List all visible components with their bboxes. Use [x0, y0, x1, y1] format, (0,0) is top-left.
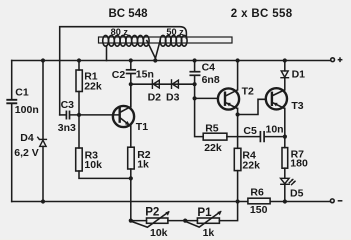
capacitor C5	[260, 132, 264, 142]
svg-text:3n3: 3n3	[58, 122, 76, 134]
svg-text:22k: 22k	[84, 80, 102, 92]
wire T3 collector to D1	[284, 78, 286, 90]
transistor T1	[113, 106, 134, 127]
wire R1 to C3 node to R3	[78, 92, 80, 149]
wire D2 D3 link line	[131, 83, 195, 85]
svg-text:D3: D3	[166, 91, 180, 103]
wire P2 left lead	[131, 220, 147, 222]
svg-text:C4: C4	[202, 62, 216, 74]
transistor T3	[266, 88, 287, 109]
transistor arrowheads	[125, 103, 278, 126]
svg-text:D5: D5	[290, 187, 304, 199]
svg-text:6,2 V: 6,2 V	[14, 147, 39, 159]
led D5 arrowheads	[291, 179, 296, 183]
terminal minus sign	[338, 200, 343, 202]
T1 npn emitter arrow	[125, 121, 130, 125]
wire T1 emitter to R2	[130, 126, 132, 147]
svg-text:R6: R6	[250, 186, 264, 198]
svg-text:1k: 1k	[203, 227, 215, 239]
potentiometer wiper arrowheads	[165, 211, 221, 216]
svg-text:P2: P2	[145, 206, 159, 219]
wire R7 to D5	[284, 168, 286, 178]
capacitor C2	[127, 70, 136, 74]
svg-text:150: 150	[250, 204, 268, 216]
T2 pnp emitter arrow	[226, 103, 231, 107]
wire T2 collector to rail	[237, 61, 239, 90]
svg-text:10n: 10n	[266, 124, 284, 136]
wire T2 emitter to T3 base jog	[238, 99, 266, 114]
svg-text:15n: 15n	[136, 68, 154, 80]
wire R3 bottom lead	[79, 171, 131, 178]
resistor R7	[282, 148, 288, 169]
wire D4 branch upper	[42, 61, 44, 140]
transformer winding 80z	[103, 35, 149, 46]
wire winding 80z left lead	[106, 46, 108, 61]
svg-text:1k: 1k	[137, 159, 149, 171]
wire D1 to rail	[284, 61, 286, 71]
svg-text:D4: D4	[20, 132, 34, 144]
wire C4 down to R5 corner	[195, 76, 204, 137]
wire P2 to P1 link	[168, 220, 198, 222]
wire T2 emitter down	[237, 108, 239, 114]
T3 pnp emitter arrow	[273, 103, 278, 107]
wire C2 to T1 collector	[130, 74, 132, 107]
led D5	[281, 178, 296, 184]
svg-text:P1: P1	[197, 206, 212, 219]
capacitor C3	[66, 111, 69, 118]
resistor R1	[76, 70, 82, 92]
transistor T2	[218, 88, 239, 109]
svg-text:50 z: 50 z	[166, 27, 184, 37]
wire T3 emitter down to R7	[284, 108, 286, 147]
diode D1	[281, 71, 289, 78]
potentiometer P2	[147, 218, 168, 223]
svg-text:10k: 10k	[84, 159, 102, 171]
resistor R2	[128, 147, 135, 169]
wire C2 top lead	[130, 61, 132, 70]
wire top supply rail	[12, 60, 331, 62]
resistor R4	[234, 148, 241, 170]
transformer winding 50z	[160, 35, 187, 46]
svg-text:6n8: 6n8	[202, 74, 220, 86]
wire C5 to T3 emitter column	[265, 136, 285, 138]
terminal minus	[330, 199, 334, 203]
terminal plus sign	[338, 59, 343, 61]
svg-text:D1: D1	[292, 68, 306, 80]
wire bottom supply rail	[12, 201, 331, 203]
svg-text:D2: D2	[148, 91, 162, 103]
svg-text:C2: C2	[112, 69, 126, 81]
capacitor C4	[190, 72, 199, 76]
wire left rail upper	[11, 61, 13, 100]
svg-text:T2: T2	[242, 85, 254, 97]
svg-text:C3: C3	[61, 99, 75, 111]
diode D2	[152, 80, 159, 88]
wire T2 base line	[195, 97, 218, 99]
transformer core bar	[99, 37, 233, 43]
resistor R6	[248, 198, 270, 204]
svg-text:180: 180	[290, 158, 308, 170]
wire R1 top lead	[78, 61, 80, 71]
wire transformer center tap	[147, 40, 161, 58]
wire R5 to C5	[227, 136, 260, 138]
svg-text:2 x BC 558: 2 x BC 558	[231, 8, 293, 20]
wire R2 bottom to P2	[130, 169, 132, 221]
capacitor C1	[7, 100, 16, 104]
resistor R3	[76, 148, 83, 171]
terminal plus	[331, 58, 335, 62]
wire D4 branch lower	[42, 146, 44, 201]
wire R4 top lead	[237, 115, 239, 149]
zener diode D4	[38, 137, 47, 146]
wire R4 bottom to P1 right	[219, 171, 237, 221]
svg-text:80 z: 80 z	[111, 27, 129, 37]
wire T1 base line	[70, 114, 120, 116]
resistor R5	[203, 133, 227, 140]
wire C3 input link	[60, 114, 66, 116]
wire T1 collector lead	[130, 84, 132, 107]
svg-text:C5: C5	[243, 125, 257, 137]
wire C4 top lead	[194, 61, 196, 72]
svg-text:T3: T3	[291, 100, 303, 112]
potentiometer P1	[197, 218, 219, 223]
svg-text:R5: R5	[205, 123, 219, 135]
wire left rail lower	[11, 104, 13, 202]
svg-text:100n: 100n	[15, 104, 39, 116]
svg-text:22k: 22k	[242, 160, 260, 172]
svg-text:BC 548: BC 548	[109, 8, 149, 20]
svg-text:T1: T1	[136, 121, 148, 133]
wire D5 to rail	[284, 185, 286, 202]
wire feedback line from top	[60, 27, 187, 115]
svg-text:C1: C1	[15, 87, 29, 99]
svg-text:10k: 10k	[150, 227, 168, 239]
labels	[109, 8, 293, 20]
svg-text:22k: 22k	[204, 142, 222, 154]
diode D3	[172, 80, 179, 88]
